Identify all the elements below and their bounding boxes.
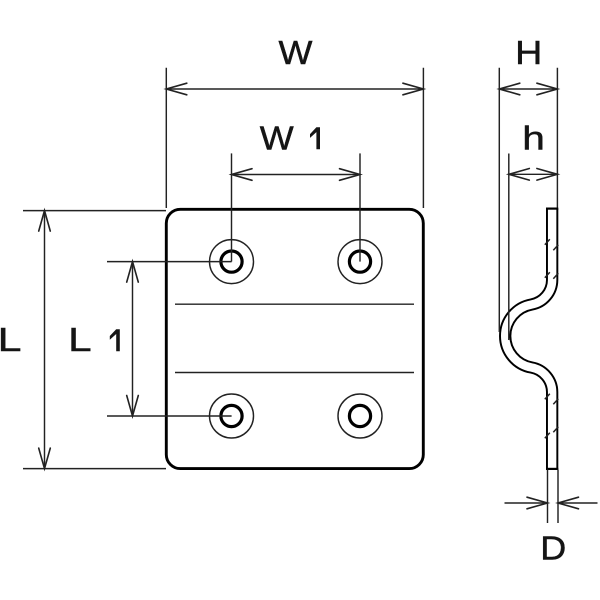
L dimension line bbox=[44, 211, 46, 469]
L extension line top bbox=[23, 210, 166, 212]
D extension line left bbox=[547, 470, 549, 524]
tick mark lower strip right 2 bbox=[553, 427, 558, 433]
tick mark upper strip right 2 bbox=[553, 273, 558, 279]
hole bottom-right outer bbox=[338, 394, 382, 438]
L1 dimension line bbox=[132, 262, 134, 416]
W1 extension line left bbox=[231, 153, 233, 261]
tick mark upper strip left bbox=[545, 239, 550, 245]
L arrowhead top bbox=[39, 211, 51, 232]
h extension line left bbox=[508, 154, 510, 341]
H extension line right bbox=[556, 68, 558, 208]
D extension line right bbox=[557, 470, 559, 524]
D dimension line left segment bbox=[505, 502, 548, 504]
hole top-left inner bbox=[221, 251, 242, 272]
W1 dimension line bbox=[232, 174, 361, 176]
tick mark lower strip left 1 bbox=[545, 394, 550, 400]
tick mark upper strip left 2 bbox=[545, 272, 550, 278]
W1 arrowhead left bbox=[232, 169, 253, 181]
H extension line left bbox=[498, 68, 500, 332]
W dimension line bbox=[166, 88, 423, 90]
H arrowhead left bbox=[499, 83, 520, 95]
tick mark lower strip left 2 bbox=[545, 433, 550, 439]
hole bottom-left outer bbox=[210, 394, 254, 438]
tick mark upper strip right bbox=[553, 245, 558, 251]
side profile bottom edge cap bbox=[546, 468, 558, 470]
L1 arrowhead bottom bbox=[127, 396, 139, 417]
L1 extension line top bbox=[107, 261, 232, 263]
side profile top edge cap bbox=[546, 208, 558, 210]
hole bottom-right inner bbox=[349, 405, 370, 426]
hole top-right inner bbox=[349, 251, 370, 272]
plate outline (front view rounded square) bbox=[166, 209, 423, 468]
W arrowhead left bbox=[166, 83, 187, 95]
W1 extension line right bbox=[359, 153, 361, 261]
svg-text:L: L bbox=[68, 322, 91, 359]
W extension line left bbox=[165, 68, 167, 208]
D arrowhead right (points left) bbox=[558, 497, 579, 509]
svg-text:W: W bbox=[279, 35, 313, 71]
hole top-left outer bbox=[210, 240, 254, 284]
tick mark lower strip right 1 bbox=[553, 399, 558, 405]
svg-text:H: H bbox=[515, 35, 542, 71]
h arrowhead right bbox=[537, 169, 558, 181]
side profile body (Z-offset strip) bbox=[505, 209, 552, 470]
bend line lower bbox=[175, 372, 414, 374]
W arrowhead right bbox=[403, 83, 424, 95]
hole top-right outer bbox=[338, 240, 382, 284]
W1 arrowhead right bbox=[340, 169, 361, 181]
bend line upper bbox=[175, 303, 414, 305]
L arrowhead bottom bbox=[39, 448, 51, 469]
svg-text:h: h bbox=[522, 120, 545, 157]
H arrowhead right bbox=[537, 83, 558, 95]
D arrowhead left (points right) bbox=[527, 497, 548, 509]
D dimension line right segment bbox=[558, 502, 598, 504]
L extension line bottom bbox=[23, 468, 166, 470]
h dimension line bbox=[509, 173, 558, 175]
svg-text:W: W bbox=[260, 121, 294, 157]
L1 arrowhead top bbox=[127, 262, 139, 283]
W extension line right bbox=[422, 68, 424, 208]
L1 extension line bottom bbox=[107, 415, 232, 417]
svg-text:D: D bbox=[540, 531, 566, 567]
svg-text:L: L bbox=[0, 322, 21, 359]
H dimension line bbox=[499, 88, 557, 90]
h arrowhead left bbox=[509, 169, 530, 181]
hole bottom-left inner bbox=[221, 405, 242, 426]
